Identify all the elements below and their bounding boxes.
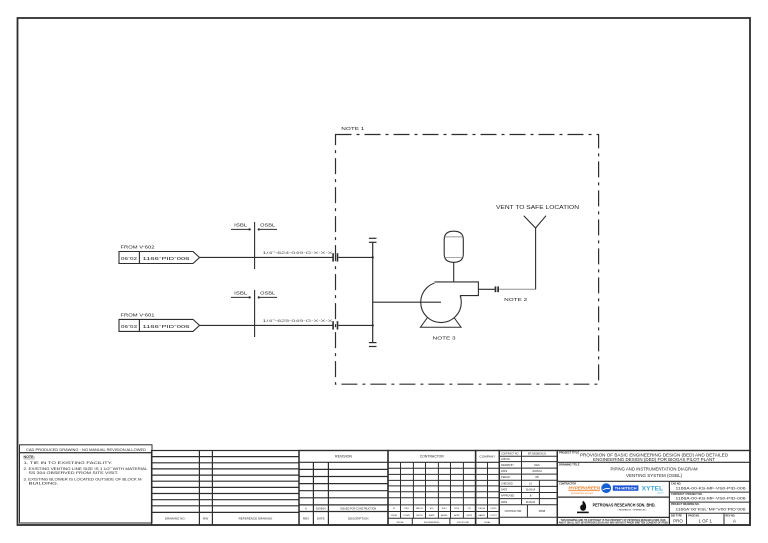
project drawing no cell	[669, 512, 750, 514]
suction header pipe with capped ends	[369, 238, 377, 346]
svg-text:DATE: DATE	[501, 501, 508, 504]
svg-text:PRO: PRO	[404, 508, 409, 510]
svg-text:( RESEARCH / OPERATOR ): ( RESEARCH / OPERATOR )	[618, 508, 647, 511]
svg-text:HB: HB	[535, 476, 539, 479]
svg-text:P.ENGR: P.ENGR	[501, 476, 510, 479]
svg-text:01/09/14: 01/09/14	[526, 489, 536, 492]
svg-text:01/09/14: 01/09/14	[526, 501, 536, 504]
svg-text:THIS DRAWING AND ITS COPYRIGHT: THIS DRAWING AND ITS COPYRIGHT IS THE PR…	[561, 519, 667, 522]
pipe line from V-602	[200, 256, 334, 258]
svg-text:DESCRIPTION: DESCRIPTION	[348, 517, 369, 521]
svg-text:1/4"-624-049-G-X-X-X: 1/4"-624-049-G-X-X-X	[263, 249, 334, 255]
svg-text:INST: INST	[442, 508, 448, 510]
svg-text:REV NO.: REV NO.	[726, 514, 736, 517]
svg-text:06-03: 06-03	[121, 323, 138, 329]
junction node line1/header	[372, 256, 374, 258]
svg-text:DATE: DATE	[501, 489, 508, 492]
svg-text:FROM V-602: FROM V-602	[121, 244, 156, 250]
svg-text:TH-HITECH: TH-HITECH	[615, 487, 638, 491]
svg-text:CONTRACTOR: CONTRACTOR	[505, 510, 522, 513]
petronas emblem	[577, 501, 589, 514]
petronas company cell	[557, 516, 669, 518]
svg-text:-: -	[524, 458, 525, 461]
svg-text:AZMI: AZMI	[454, 514, 460, 517]
tie-in break symbol 2 at boundary	[332, 321, 338, 329]
svg-text:CHECKED: CHECKED	[501, 482, 513, 485]
svg-text:VENTING SYSTEM (OSBL): VENTING SYSTEM (OSBL)	[626, 473, 683, 478]
svg-text:HYPERGREEN: HYPERGREEN	[569, 485, 601, 490]
svg-text:PL: PL	[393, 508, 396, 510]
svg-text:1166A-00-KS-MF-VS0-PID-006: 1166A-00-KS-MF-VS0-PID-006	[676, 486, 746, 491]
contract/project no cell	[669, 501, 750, 503]
svg-text:NOTE 1: NOTE 1	[341, 126, 364, 132]
svg-text:A: A	[733, 519, 736, 524]
approval data block	[499, 451, 557, 526]
svg-text:ISBL: ISBL	[234, 223, 247, 229]
hypergreen logo	[569, 485, 601, 495]
svg-text:E&I: E&I	[430, 508, 434, 510]
svg-text:NOTE 2: NOTE 2	[504, 297, 528, 302]
silencer vessel on blower	[444, 231, 463, 262]
svg-text:VENT TO SAFE LOCATION: VENT TO SAFE LOCATION	[496, 205, 580, 211]
svg-text:PETRONAS RESEARCH SDN. BHD.: PETRONAS RESEARCH SDN. BHD.	[593, 502, 656, 507]
svg-text:1166A-00-KS-MF-VS0-PID-006: 1166A-00-KS-MF-VS0-PID-006	[676, 496, 746, 501]
svg-text:FROM V-601: FROM V-601	[121, 311, 156, 317]
tie-in break symbol 1 at boundary	[332, 253, 338, 261]
svg-text:NOTE:: NOTE:	[24, 455, 35, 459]
svg-text:COMPANY: COMPANY	[479, 455, 495, 459]
title section	[557, 451, 750, 526]
off-page connector FROM V-601	[119, 311, 200, 331]
svg-text:HARIS: HARIS	[478, 514, 485, 517]
revision table	[299, 451, 388, 526]
svg-text:CONTRACT NO: CONTRACT NO	[501, 453, 519, 456]
svg-text:sdn bhd: sdn bhd	[657, 493, 663, 495]
svg-text:CIV: CIV	[467, 508, 471, 510]
svg-text:DELTA: DELTA	[478, 507, 485, 510]
ISBL/OSBL battery limit marker 2	[231, 290, 277, 337]
svg-text:ENGINEERING DESIGN (DED) FOR B: ENGINEERING DESIGN (DED) FOR BIOGAS PILO…	[593, 457, 715, 462]
vessel head seam lines	[445, 236, 464, 238]
svg-text:A: A	[305, 507, 307, 510]
svg-text:DRAWN BY: DRAWN BY	[501, 464, 514, 467]
svg-text:RAZK: RAZK	[429, 514, 435, 517]
svg-text:EP-0000BC4123: EP-0000BC4123	[528, 452, 547, 456]
svg-text:INITIAL: INITIAL	[396, 521, 404, 524]
svg-text:1/4"-625-049-G-X-X-X: 1/4"-625-049-G-X-X-X	[263, 317, 334, 323]
notes block	[20, 445, 153, 523]
svg-text:CAD PRODUCED DRAWING - NO MANU: CAD PRODUCED DRAWING - NO MANUAL REVISIO…	[26, 447, 147, 452]
svg-text:APPROVED: APPROVED	[501, 495, 515, 498]
svg-text:PROJECT TITLE: PROJECT TITLE	[559, 451, 579, 455]
svg-text:KLMN: KLMN	[404, 515, 410, 517]
dis type / page / rev cells	[686, 513, 688, 525]
svg-text:LOTFI: LOTFI	[490, 515, 497, 517]
svg-text:ISSUED FOR CONSTRUCTION: ISSUED FOR CONSTRUCTION	[340, 507, 376, 510]
svg-text:DRAWING TITLE: DRAWING TITLE	[559, 463, 580, 467]
partner bar logo	[613, 485, 639, 490]
battery limit boundary box (dashed)	[336, 135, 599, 385]
vessel outlet line to casing	[453, 262, 455, 282]
svg-text:NOTE 3: NOTE 3	[433, 336, 457, 341]
svg-text:ISBL: ISBL	[234, 291, 247, 297]
svg-text:REFERENCE DRAWING: REFERENCE DRAWING	[239, 517, 273, 521]
svg-text:PRSB: PRSB	[539, 510, 546, 513]
contractor sign-off table	[388, 451, 476, 526]
pipe line from V-601	[200, 324, 334, 326]
svg-text:AHMD: AHMD	[441, 514, 448, 517]
svg-text:MECH: MECH	[416, 508, 423, 510]
cad no cell	[669, 491, 750, 493]
svg-text:SMTH: SMTH	[416, 515, 423, 517]
blower support saddle	[420, 314, 461, 327]
vent to atmosphere symbol	[524, 216, 546, 228]
pump suction line into impeller center	[373, 301, 441, 303]
svg-text:OSBL: OSBL	[260, 223, 275, 229]
pipe continuation to header (line 2)	[338, 324, 372, 326]
svg-text:PIPING AND INSTRUMENTATION DIA: PIPING AND INSTRUMENTATION DIAGRAM	[611, 466, 698, 471]
svg-text:JOB NO: JOB NO	[501, 458, 510, 461]
svg-text:LS: LS	[529, 482, 532, 485]
svg-text:DRAWING NO.: DRAWING NO.	[165, 517, 186, 521]
svg-text:PRO: PRO	[673, 519, 683, 524]
svg-text:DATE: DATE	[317, 517, 325, 521]
svg-text:CONTRACTOR: CONTRACTOR	[420, 455, 445, 459]
existing vent line (gray)	[499, 288, 535, 290]
svg-text:LWTR: LWTR	[466, 515, 472, 517]
svg-text:DATE: DATE	[501, 470, 508, 473]
svg-text:REVISION: REVISION	[335, 455, 353, 459]
pipe continuation to header (line 1)	[338, 256, 372, 258]
svg-text:06-02: 06-02	[121, 255, 138, 261]
svg-text:R/N: R/N	[203, 517, 208, 521]
svg-text:ENGINEERING: ENGINEERING	[424, 522, 440, 524]
svg-text:OSBL: OSBL	[260, 291, 275, 297]
svg-text:1. TIE IN TO EXISTING FACILITY: 1. TIE IN TO EXISTING FACILITY.	[24, 461, 113, 465]
svg-text:BUILDING.: BUILDING.	[29, 482, 59, 486]
project title cell	[557, 461, 750, 463]
svg-text:FNDR: FNDR	[391, 515, 397, 517]
hose connection fitting (NOTE 2)	[495, 286, 499, 292]
off-page connector FROM V-602	[119, 244, 200, 264]
svg-text:FINAL: FINAL	[484, 521, 491, 524]
svg-text:1 OF 1: 1 OF 1	[698, 519, 712, 524]
partner round logo	[601, 483, 611, 493]
blower circle (NOTE 3)	[421, 282, 462, 323]
disclaimer cell	[559, 519, 669, 525]
reference drawing table	[152, 451, 300, 526]
company sign-off table	[476, 451, 500, 526]
svg-text:1166-PID-006: 1166-PID-006	[143, 255, 191, 261]
svg-text:PAGE NO.: PAGE NO.	[688, 514, 700, 517]
svg-text:DISCIPLINE: DISCIPLINE	[457, 522, 470, 524]
svg-text:PROJECT DRAWING NO.: PROJECT DRAWING NO.	[671, 503, 700, 506]
svg-text:REV: REV	[303, 517, 309, 521]
svg-text:PIPE: PIPE	[454, 508, 460, 510]
drawing title cell	[557, 480, 750, 482]
svg-text:SS 304 OBSERVED FROM SITE VISI: SS 304 OBSERVED FROM SITE VISIT.	[29, 471, 119, 475]
svg-text:CAD NO.: CAD NO.	[671, 483, 681, 486]
svg-text:20/06/04: 20/06/04	[532, 470, 542, 473]
junction node line2/header	[372, 324, 374, 326]
svg-text:02/09/04: 02/09/04	[316, 507, 326, 510]
svg-text:AND IT SHALL NOT BE REPRODUCED: AND IT SHALL NOT BE REPRODUCED IN ANY WA…	[559, 522, 669, 525]
blower discharge casing	[435, 282, 479, 296]
contractor logos cell	[668, 481, 670, 525]
svg-text:1166-PID-006: 1166-PID-006	[143, 323, 191, 329]
discharge stub line	[478, 288, 494, 290]
svg-text:1166A-00-KSL-MF-V00-PID-006: 1166A-00-KSL-MF-V00-PID-006	[676, 506, 746, 511]
svg-text:ENGINEERING SDN BHD: ENGINEERING SDN BHD	[571, 493, 594, 495]
svg-text:MAS: MAS	[534, 464, 540, 467]
svg-text:XYTEL: XYTEL	[642, 487, 664, 493]
svg-text:B: B	[530, 495, 532, 498]
vent riser	[535, 228, 537, 290]
ISBL/OSBL battery limit marker 1	[231, 222, 277, 269]
svg-text:DIS TYPE: DIS TYPE	[671, 514, 682, 517]
svg-text:CMTS: CMTS	[490, 508, 497, 510]
